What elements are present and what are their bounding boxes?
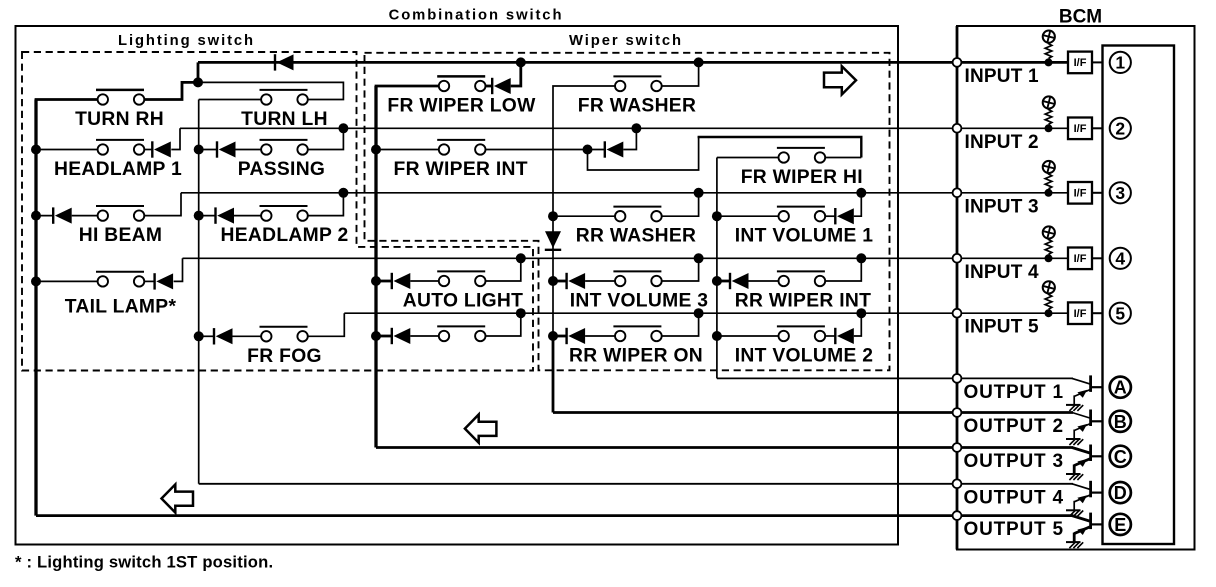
svg-text:HEADLAMP 2: HEADLAMP 2 <box>221 225 349 246</box>
wire OUTPUT 4 net <box>199 483 1073 485</box>
riser bus x=717 <box>716 158 718 379</box>
svg-text:INT VOLUME 2: INT VOLUME 2 <box>735 346 874 367</box>
wire riser to FR FOG diode <box>199 335 214 337</box>
wire wiper bus to lower-row diode <box>376 335 392 338</box>
wire FR WIPER LOW diode to INPUT 1 bus <box>511 62 521 86</box>
svg-text:INPUT 5: INPUT 5 <box>965 317 1039 338</box>
combination switch outer box <box>16 26 899 545</box>
terminal circled 2 <box>1110 118 1131 139</box>
resistor R5 (pull-up) <box>1045 294 1052 310</box>
wire link to FR WIPER HI right <box>825 157 861 159</box>
transistor Q1 (OUTPUT 1 driver) <box>1066 375 1091 411</box>
wire x553 to diode D12 <box>553 280 567 283</box>
diode D10 (INT VOLUME 1) <box>835 208 854 224</box>
wire node to diode D9 <box>588 149 605 151</box>
svg-text:TAIL LAMP*: TAIL LAMP* <box>65 297 177 318</box>
svg-text:I/F: I/F <box>1074 308 1087 320</box>
wire HI BEAM right to INPUT 3 <box>144 193 181 216</box>
wire OUTPUT 2 net <box>553 411 1073 414</box>
resistor R4 (pull-up) <box>1045 239 1052 255</box>
wire FR WASHER left drop bus x=553 <box>553 86 615 413</box>
flow arrow left (middle) <box>465 415 497 443</box>
svg-text:Combination switch: Combination switch <box>389 8 564 24</box>
junction left bus / HI BEAM <box>31 211 41 221</box>
switch FR WASHER <box>613 76 661 91</box>
node INPUT 3 <box>953 188 962 197</box>
svg-text:I/F: I/F <box>1074 57 1087 69</box>
wire HEADLAMP 1 diode to INPUT 2 <box>171 128 180 149</box>
wire lower-row right to INPUT 5 <box>486 313 521 336</box>
junction node at (198,82) <box>193 77 203 87</box>
svg-text:INPUT 3: INPUT 3 <box>965 196 1039 217</box>
diode D9 (FR WIPER INT) <box>605 141 624 157</box>
wire I/F to terminal 5 <box>1092 312 1103 314</box>
wire TAIL LAMP to diode <box>144 280 154 282</box>
switch FR WIPER LOW <box>437 76 485 91</box>
terminal circled E <box>1110 514 1131 535</box>
I/F box INPUT 3 <box>1068 182 1092 204</box>
wire FR FOG diode to switch <box>233 335 262 337</box>
switch RR WIPER ON <box>613 326 661 341</box>
lighting riser bus x=198.7 <box>198 100 200 484</box>
left supply bus (lighting switch common) <box>34 100 37 516</box>
battery power symbol INPUT 4 <box>1043 226 1055 238</box>
svg-text:FR WIPER HI: FR WIPER HI <box>741 167 863 188</box>
svg-text:* : Lighting switch 1ST positi: * : Lighting switch 1ST position. <box>15 553 273 572</box>
switch lower row (unlabeled) <box>437 326 485 341</box>
wire HI BEAM diode to switch <box>72 215 98 217</box>
junction x717 / RR WIPER INT <box>712 276 722 286</box>
svg-text:INPUT 4: INPUT 4 <box>965 262 1039 283</box>
thick link to FR WIPER HI <box>698 137 862 158</box>
wire collector Q4 to terminal <box>1091 492 1103 494</box>
terminal circled 5 <box>1110 303 1131 324</box>
junction left bus / HEADLAMP 1 <box>31 145 41 155</box>
transistor Q3 (OUTPUT 3 driver) <box>1066 445 1091 481</box>
junction x717 / INT VOLUME 2 <box>712 331 722 341</box>
junction INPUT 5 / lower row <box>516 308 526 318</box>
diode D6 (FR FOG) <box>214 328 233 344</box>
wire diode D10 to INPUT 3 <box>854 193 862 216</box>
wire riser to HEADLAMP 2 diode <box>199 215 216 217</box>
switch HEADLAMP 1 <box>96 140 144 155</box>
diode D17 (HEADLAMP 2) <box>216 207 235 223</box>
junction INPUT 3 / INT VOLUME 1 <box>856 188 866 198</box>
diode D12 (INT VOLUME 3) <box>567 273 586 289</box>
BCM inner connector box <box>1103 46 1175 545</box>
svg-text:I/F: I/F <box>1074 188 1087 200</box>
wire riser to PASSING diode <box>199 149 217 151</box>
resistor R2 (pull-up) <box>1045 109 1052 125</box>
wire HEADLAMP 2 right to INPUT 3 <box>308 193 343 216</box>
wire INPUT 1 net (thick top bus) <box>198 61 1068 64</box>
battery power symbol INPUT 2 <box>1043 96 1055 108</box>
junction resistor tap INPUT 2 <box>1045 124 1053 132</box>
switch FR FOG <box>260 327 308 342</box>
wire diode D16 to INPUT 5 <box>854 313 862 336</box>
junction wiper bus / FR WIPER INT <box>371 145 381 155</box>
wire INPUT 4 net <box>183 257 1069 259</box>
BCM left bus <box>956 26 959 550</box>
wire x553 to RR WASHER <box>553 215 615 217</box>
terminal circled C <box>1110 446 1131 467</box>
svg-text:Wiper switch: Wiper switch <box>569 33 683 49</box>
svg-text:4: 4 <box>1115 249 1125 269</box>
diode D2 (HEADLAMP 1) <box>152 141 171 157</box>
wire FR FOG right to INPUT 5 <box>308 313 344 336</box>
terminal circled 4 <box>1110 248 1131 269</box>
svg-text:E: E <box>1114 515 1126 535</box>
svg-text:HI BEAM: HI BEAM <box>79 225 163 246</box>
wire RR WIPER ON right to INPUT 5 <box>662 313 699 336</box>
I/F box INPUT 1 <box>1068 52 1092 74</box>
wire diode D9 to INPUT 2 <box>623 128 636 149</box>
wire OUTPUT 3 net <box>376 446 1073 449</box>
svg-text:FR WASHER: FR WASHER <box>578 96 696 117</box>
svg-text:OUTPUT 1: OUTPUT 1 <box>964 382 1064 403</box>
wire TURN RH to INPUT 1 riser <box>144 62 198 99</box>
wiper riser bus x=376 <box>374 86 377 448</box>
node INPUT 1 <box>953 58 962 67</box>
junction INPUT 4 / INT VOLUME 3 <box>694 253 704 263</box>
wire collector Q5 to terminal <box>1091 523 1103 525</box>
junction INPUT 2 / PASSING riser <box>338 123 348 133</box>
wire collector Q3 to terminal <box>1091 455 1103 457</box>
diode D4 (HI BEAM) <box>53 207 71 223</box>
battery power symbol INPUT 3 <box>1043 161 1055 173</box>
switch INT VOLUME 3 <box>613 271 661 286</box>
transistor Q2 (OUTPUT 2 driver) <box>1066 410 1091 446</box>
svg-text:FR WIPER LOW: FR WIPER LOW <box>387 96 536 117</box>
wire RR WIPER INT right to INPUT 4 <box>825 258 861 281</box>
node INPUT 2 <box>953 124 962 133</box>
junction x553 / RR WIPER ON <box>548 331 558 341</box>
switch TURN LH <box>260 90 308 105</box>
junction left bus / TAIL LAMP <box>31 276 41 286</box>
junction x553 / INT VOLUME 3 <box>548 276 558 286</box>
battery power symbol INPUT 5 <box>1043 281 1055 293</box>
svg-text:FR WIPER INT: FR WIPER INT <box>394 159 528 180</box>
diode D16 (INT VOLUME 2) <box>835 328 854 344</box>
junction lighting riser / HEADLAMP 2 <box>194 211 204 221</box>
diode D3 (PASSING) <box>217 141 236 157</box>
wire FR WIPER LOW to diode <box>486 85 493 88</box>
wire diode D17 to HEADLAMP 2 <box>234 215 261 217</box>
diode D7 (FR WIPER LOW) <box>492 78 511 94</box>
switch FR WIPER INT <box>437 140 485 155</box>
switch TAIL LAMP <box>96 272 144 287</box>
transistor Q4 (OUTPUT 4 driver) <box>1066 481 1091 517</box>
switch RR WASHER <box>613 207 661 222</box>
diode D13 (RR WIPER INT) <box>730 273 749 289</box>
wire I/F to terminal 4 <box>1092 257 1103 259</box>
resistor R1 (pull-up) <box>1045 43 1052 59</box>
svg-text:3: 3 <box>1115 183 1125 203</box>
switch INT VOLUME 1 <box>777 207 825 222</box>
wire FR WASHER right to INPUT 1 bus <box>662 62 699 86</box>
node INPUT 5 <box>953 309 962 318</box>
node OUTPUT 1 <box>953 374 962 383</box>
wire wiper bus to FR WIPER INT <box>376 149 439 151</box>
wire collector Q1 to terminal <box>1091 386 1103 388</box>
wire RR WASHER right to INPUT 3 <box>662 193 699 216</box>
wire left bus to HI BEAM diode <box>36 215 53 217</box>
switch RR WIPER INT <box>777 271 825 286</box>
wire FR WIPER HI left to riser x=717 <box>717 157 779 159</box>
wire I/F to terminal 3 <box>1092 192 1103 194</box>
terminal circled 3 <box>1110 182 1131 203</box>
wire INPUT 2 net <box>180 127 1068 129</box>
flow arrow left (bottom) <box>162 484 194 512</box>
junction INPUT 3 / HEADLAMP 2 riser <box>338 188 348 198</box>
junction INPUT 2 / FR WIPER INT diode <box>631 123 641 133</box>
junction wiper bus / lower row <box>371 331 381 341</box>
wire x717 to INT VOLUME 1 <box>717 215 779 217</box>
svg-text:INPUT 1: INPUT 1 <box>965 66 1039 87</box>
node OUTPUT 3 <box>953 443 962 452</box>
junction x717 / INT VOLUME 1 <box>712 211 722 221</box>
switch HEADLAMP 2 <box>260 206 308 221</box>
svg-text:BCM: BCM <box>1059 7 1102 28</box>
diode D5 (TAIL LAMP) <box>155 273 174 289</box>
wire HEADLAMP 1 to diode <box>144 149 152 151</box>
wire TAIL LAMP diode to INPUT 4 <box>174 258 183 281</box>
junction INPUT 4 / AUTO LIGHT <box>516 253 526 263</box>
svg-text:OUTPUT 3: OUTPUT 3 <box>964 451 1064 472</box>
svg-text:HEADLAMP 1: HEADLAMP 1 <box>54 159 182 180</box>
wire INPUT 5 net <box>344 312 1068 314</box>
svg-text:2: 2 <box>1115 119 1125 139</box>
wire diode D15 to RR WIPER ON <box>585 335 615 337</box>
junction resistor tap INPUT 1 <box>1045 58 1053 66</box>
wiper switch dashed box <box>365 53 890 371</box>
junction INPUT 1 / FR WIPER LOW <box>516 57 526 67</box>
resistor R3 (pull-up) <box>1045 173 1052 189</box>
diode D14 (lower row) <box>392 328 411 344</box>
junction wiper bus / AUTO LIGHT <box>371 276 381 286</box>
wire x717 to INT VOLUME 2 <box>717 335 779 337</box>
svg-text:I/F: I/F <box>1074 123 1087 135</box>
junction lighting riser / PASSING <box>194 145 204 155</box>
junction x553 / RR WASHER <box>548 211 558 221</box>
wire diode D13 to RR WIPER INT <box>749 280 779 282</box>
switch TURN RH <box>96 90 144 105</box>
wire left bus to TURN RH <box>35 98 98 101</box>
diode D11 (AUTO LIGHT) <box>392 273 411 289</box>
battery power symbol INPUT 1 <box>1043 30 1055 42</box>
junction resistor tap INPUT 4 <box>1045 254 1053 262</box>
wire FR WIPER INT node jog to FR WIPER HI <box>588 136 699 170</box>
svg-text:TURN LH: TURN LH <box>241 109 328 130</box>
node OUTPUT 5 <box>953 511 962 520</box>
svg-text:INT VOLUME 3: INT VOLUME 3 <box>570 291 709 312</box>
svg-text:OUTPUT 2: OUTPUT 2 <box>964 416 1064 437</box>
svg-text:TURN RH: TURN RH <box>75 109 164 130</box>
wire I/F to terminal 1 <box>1092 61 1103 63</box>
wire left bus to HEADLAMP 1 <box>36 149 98 151</box>
svg-text:D: D <box>1114 483 1127 503</box>
switch AUTO LIGHT <box>437 271 485 286</box>
junction INPUT 3 / RR WASHER <box>694 188 704 198</box>
svg-text:I/F: I/F <box>1074 253 1087 265</box>
wire PASSING right to INPUT 2 <box>308 128 343 149</box>
wire TURN LH left to lighting riser <box>199 99 261 101</box>
transistor Q5 (OUTPUT 5 driver) <box>1066 513 1091 549</box>
svg-text:OUTPUT 4: OUTPUT 4 <box>964 487 1064 508</box>
wire left bus to TAIL LAMP <box>36 280 98 282</box>
svg-text:INPUT 2: INPUT 2 <box>965 132 1039 153</box>
wire OUTPUT 1 net <box>717 377 1073 379</box>
svg-text:A: A <box>1114 378 1127 398</box>
terminal circled D <box>1110 482 1131 503</box>
wire FR WIPER INT right to diode node <box>486 149 588 151</box>
switch FR WIPER HI <box>777 148 825 163</box>
junction INPUT 4 / RR WIPER INT <box>856 253 866 263</box>
wire AUTO LIGHT right to INPUT 4 <box>486 258 521 281</box>
svg-text:OUTPUT 5: OUTPUT 5 <box>964 519 1064 540</box>
wire wiper bus to AUTO LIGHT diode <box>376 280 392 283</box>
svg-text:INT VOLUME 1: INT VOLUME 1 <box>735 226 874 247</box>
svg-text:B: B <box>1114 412 1127 432</box>
wire OUTPUT 5 net <box>36 514 1073 517</box>
svg-text:AUTO LIGHT: AUTO LIGHT <box>403 291 523 312</box>
switch HI BEAM <box>96 206 144 221</box>
wire diode D12 to INT VOLUME 3 <box>585 280 615 282</box>
junction INPUT 5 / RR WIPER ON <box>694 308 704 318</box>
node INPUT 4 <box>953 254 962 263</box>
wire x553 to diode D15 <box>553 335 567 338</box>
thick lower part of x=553 drop to OUTPUT 2 <box>552 336 555 413</box>
junction INPUT 5 / INT VOLUME 2 <box>856 308 866 318</box>
switch PASSING <box>260 140 308 155</box>
svg-text:RR WASHER: RR WASHER <box>576 226 697 247</box>
diode D8 on x=553 drop (pointing down) <box>545 231 561 250</box>
svg-text:5: 5 <box>1115 304 1125 324</box>
switch INT VOLUME 2 <box>777 326 825 341</box>
svg-text:C: C <box>1114 447 1127 467</box>
diode D1 on INPUT 1 bus <box>275 54 294 70</box>
junction lighting riser / FR FOG <box>194 331 204 341</box>
wire I/F to terminal 2 <box>1092 127 1103 129</box>
svg-text:1: 1 <box>1115 53 1125 73</box>
wire collector Q2 to terminal <box>1091 420 1103 422</box>
svg-text:Lighting switch: Lighting switch <box>118 33 255 49</box>
junction resistor tap INPUT 3 <box>1045 189 1053 197</box>
node OUTPUT 2 <box>953 408 962 417</box>
lighting switch dashed box <box>22 52 533 371</box>
wire INT VOLUME 2 to diode <box>825 335 835 337</box>
wire diode D11 to AUTO LIGHT <box>410 280 439 282</box>
wire INPUT 3 net <box>181 192 1068 194</box>
junction FR WIPER INT / FR WIPER HI tap <box>583 145 593 155</box>
terminal circled 1 <box>1110 52 1131 73</box>
svg-text:RR WIPER INT: RR WIPER INT <box>735 291 871 312</box>
BCM box <box>957 26 1195 550</box>
wire INT VOLUME 3 right to INPUT 4 <box>662 258 699 281</box>
junction resistor tap INPUT 5 <box>1045 309 1053 317</box>
wire PASSING diode to switch <box>236 149 262 151</box>
terminal circled B <box>1110 411 1131 432</box>
I/F box INPUT 4 <box>1068 248 1092 270</box>
flow arrow right (top) <box>824 66 856 94</box>
svg-text:RR WIPER ON: RR WIPER ON <box>569 346 703 367</box>
terminal circled A <box>1110 377 1131 398</box>
wire diode D14 to lower-row switch <box>410 335 439 337</box>
node OUTPUT 4 <box>953 479 962 488</box>
wire junction to TURN LH right riser <box>198 82 343 99</box>
wire INT VOLUME 1 to diode <box>825 215 835 217</box>
svg-text:FR FOG: FR FOG <box>247 346 322 367</box>
diode D15 (RR WIPER ON) <box>567 328 586 344</box>
I/F box INPUT 5 <box>1068 302 1092 324</box>
svg-text:PASSING: PASSING <box>238 159 325 180</box>
wire x717 to diode D13 <box>717 280 730 283</box>
junction INPUT 1 / FR WASHER <box>694 57 704 67</box>
I/F box INPUT 2 <box>1068 118 1092 140</box>
wire wiper bus to FR WIPER LOW <box>375 85 439 88</box>
